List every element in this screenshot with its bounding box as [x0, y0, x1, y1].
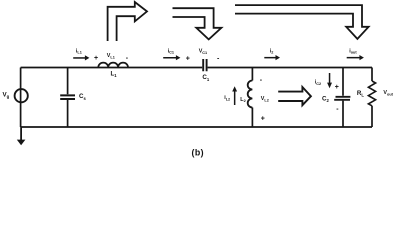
wire C2 branch — [342, 68, 344, 128]
voltage source Vg — [15, 89, 28, 102]
svg-text:(b): (b) — [192, 148, 204, 158]
ground arrow — [20, 127, 22, 140]
wire bottom rail — [21, 126, 372, 128]
svg-text:i2: i2 — [270, 48, 274, 54]
current arrow iC2 down — [329, 73, 331, 84]
big double arrow — [278, 87, 311, 105]
svg-text:+: + — [186, 55, 190, 62]
svg-text:iC2: iC2 — [315, 80, 321, 86]
hollow arrow long right-down — [235, 5, 369, 39]
svg-text:+: + — [335, 84, 339, 91]
current arrow iL2 up — [234, 91, 236, 106]
svg-text:iL1: iL1 — [76, 48, 82, 54]
svg-text:-: - — [336, 106, 339, 113]
svg-text:-: - — [260, 77, 263, 84]
wire Cs branch — [67, 68, 69, 128]
svg-text:iout: iout — [349, 48, 357, 54]
capacitor C2 — [334, 97, 350, 100]
svg-text:VL2: VL2 — [261, 96, 269, 102]
current arrow i2 — [264, 57, 276, 59]
resistor RL — [368, 81, 375, 106]
svg-text:+: + — [94, 55, 98, 62]
hollow arrow up-right — [108, 2, 147, 41]
wire left edge — [20, 68, 22, 128]
wire right edge top — [371, 68, 373, 82]
svg-text:RL: RL — [357, 90, 364, 98]
svg-text:L1: L1 — [111, 71, 118, 79]
inductor L2 — [248, 81, 253, 108]
current arrow iC1 — [163, 57, 176, 59]
wire L2 branch — [251, 68, 253, 128]
svg-text:VL1: VL1 — [107, 53, 115, 59]
svg-text:iC1: iC1 — [168, 48, 174, 54]
svg-text:-: - — [217, 55, 220, 62]
wire top rail — [21, 67, 372, 69]
svg-text:Vg: Vg — [3, 91, 10, 99]
inductor L1 — [98, 63, 128, 68]
svg-text:Cs: Cs — [79, 93, 86, 101]
wire right edge bottom — [371, 106, 373, 127]
svg-text:Vout: Vout — [383, 90, 393, 96]
svg-text:+: + — [261, 115, 265, 122]
current arrow iout — [347, 57, 361, 59]
svg-text:VC1: VC1 — [199, 49, 207, 55]
capacitor Cs — [60, 95, 75, 99]
svg-text:L2: L2 — [240, 97, 245, 103]
svg-text:C1: C1 — [202, 74, 209, 82]
svg-text:iL2: iL2 — [224, 95, 230, 101]
hollow arrow right-down — [173, 8, 222, 39]
svg-text:C2: C2 — [322, 96, 329, 104]
capacitor C1 — [203, 59, 206, 71]
svg-text:-: - — [126, 55, 129, 62]
current arrow iL1 — [73, 57, 86, 59]
